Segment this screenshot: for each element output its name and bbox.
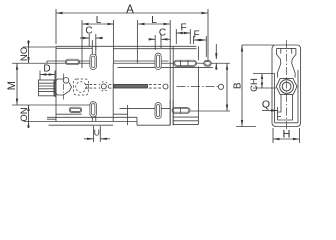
- solid shaft bar: [114, 84, 148, 88]
- bottom band inner edge (also M ext): [12, 104, 90, 106]
- top band inner edges: [47, 60, 90, 62]
- serrated block left end: [39, 80, 57, 96]
- A dim: [56, 12, 208, 14]
- D: [40, 73, 47, 75]
- left edge vertical: [55, 46, 57, 121]
- svg-text:H: H: [283, 129, 291, 141]
- dashed shaft end: [149, 85, 163, 89]
- svg-text:Q: Q: [262, 99, 270, 111]
- N bottom: both pointing up: [27, 105, 29, 111]
- svg-text:U: U: [94, 127, 100, 137]
- outer profile: [272, 45, 301, 127]
- B: [226, 63, 228, 69]
- svg-text:NO: NO: [19, 47, 30, 61]
- centerline to right: [177, 86, 219, 88]
- svg-text:B: B: [233, 82, 244, 89]
- M: [16, 63, 18, 69]
- E tall: [241, 45, 243, 52]
- left top tab: [46, 61, 48, 63]
- joint 2 vertical slots: [155, 53, 161, 70]
- bottom slot left link: [69, 107, 82, 112]
- svg-text:F: F: [180, 23, 186, 34]
- right link bottom edges: [173, 116, 198, 118]
- C dim right: [149, 38, 156, 40]
- svg-text:CH: CH: [249, 78, 260, 92]
- H dim: [273, 138, 300, 140]
- svg-text:D: D: [43, 64, 50, 75]
- crossbar block bottom (x137-170): [136, 117, 138, 125]
- small pin circle mid: [163, 84, 168, 89]
- top slot left link: [66, 59, 80, 64]
- svg-text:L: L: [96, 15, 102, 26]
- bottom band outer lines: [56, 113, 82, 115]
- svg-text:F: F: [193, 30, 199, 41]
- second link bottom inner lines: [120, 107, 171, 109]
- N top dim: [28, 40, 30, 63]
- L2: [138, 23, 145, 25]
- F dims: [176, 32, 190, 34]
- bottom small: [87, 138, 94, 140]
- second link top inner line: [118, 66, 213, 68]
- hexagon boss: [276, 78, 297, 94]
- svg-text:C: C: [85, 25, 92, 36]
- middle vertical: [112, 63, 114, 121]
- dashed socket rect + circle: [74, 79, 89, 95]
- CH small dim ext lines: [253, 73, 275, 75]
- tall E dim: [241, 45, 243, 127]
- A: [56, 12, 63, 14]
- joint 2 verticals: [169, 46, 171, 125]
- N bottom dim: [28, 105, 30, 128]
- inner wall lines: [277, 47, 296, 49]
- svg-text:ON: ON: [19, 107, 30, 121]
- tiny right dim: [215, 53, 217, 59]
- small pin circle right end: [218, 84, 223, 89]
- pin shaft: hidden dashes through joint1: [85, 85, 98, 89]
- B dim: [226, 63, 228, 111]
- Q dim: [262, 110, 278, 112]
- short dashes to vertical: [109, 85, 113, 89]
- tiny dim right of top band: [215, 44, 217, 59]
- M dim: [16, 63, 18, 105]
- bottom small dim: [93, 126, 95, 142]
- inner divisions of long slots: [179, 60, 181, 66]
- L1: [82, 23, 89, 25]
- svg-text:L: L: [151, 15, 157, 26]
- F2: [194, 39, 201, 41]
- N top: both pointing down: [27, 41, 29, 47]
- sun pin circle: [101, 84, 106, 89]
- centerline vertical: [286, 40, 288, 131]
- H: [273, 138, 280, 140]
- Q: [271, 109, 278, 111]
- right link verticals: [197, 46, 199, 60]
- svg-text:M: M: [6, 81, 18, 90]
- CH small dim: [261, 74, 263, 80]
- F1 inside: [176, 32, 183, 34]
- bottle cavity: [277, 48, 281, 77]
- L dims: [82, 23, 114, 25]
- svg-text:A: A: [126, 4, 134, 16]
- C left (outside arrows): [83, 37, 90, 39]
- right link top tab slot: [204, 60, 212, 66]
- C dim left: [80, 37, 89, 39]
- right link bottom slot: [172, 108, 190, 114]
- slots: white filled stadiums: [66, 53, 212, 119]
- lower channel: [278, 95, 293, 120]
- right link long top slot: [174, 60, 197, 66]
- top band outer edges: [56, 45, 197, 47]
- joint 1 verticals (band regions only): [91, 40, 93, 61]
- hexagon latch detail: [54, 79, 72, 95]
- C right: [149, 38, 156, 40]
- svg-text:C: C: [159, 27, 166, 38]
- D dim: [40, 74, 55, 76]
- joint 1 vertical slots: [90, 54, 97, 69]
